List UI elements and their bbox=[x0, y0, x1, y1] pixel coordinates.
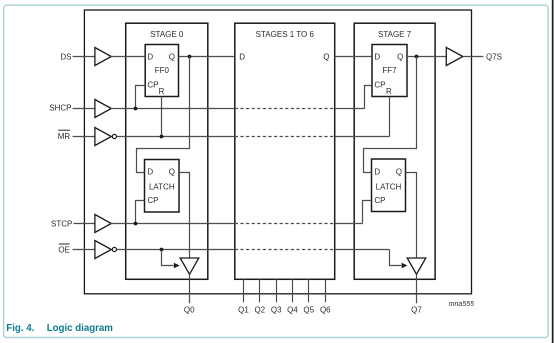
latch LATCH7 bbox=[372, 159, 406, 212]
svg-text:D: D bbox=[147, 52, 153, 61]
wire Q5 stub bbox=[308, 279, 310, 302]
svg-text:D: D bbox=[147, 168, 153, 177]
wire FF7 Q feedback to latch7 D bbox=[364, 57, 417, 173]
node FF7 Q junction bbox=[415, 55, 419, 59]
wire FF0 Q output to stages box bbox=[179, 56, 235, 58]
inverter bubble OE bbox=[112, 247, 116, 251]
wire FF7 CP riser bbox=[365, 86, 373, 109]
wire STCP into stage 7 bbox=[335, 223, 363, 225]
node SHCP-CP junction bbox=[134, 107, 138, 111]
wire buffer to FF0 D bbox=[111, 56, 145, 58]
buffer DS bbox=[95, 48, 111, 66]
wire DS to buffer bbox=[73, 56, 96, 58]
wire FF0 CP riser bbox=[136, 86, 146, 109]
svg-text:LATCH: LATCH bbox=[376, 182, 402, 191]
latch LATCH0 bbox=[145, 160, 180, 213]
svg-text:STAGE 0: STAGE 0 bbox=[150, 30, 184, 39]
wire Q7 stub bbox=[416, 274, 418, 303]
svg-text:Q: Q bbox=[169, 52, 175, 61]
svg-text:Q6: Q6 bbox=[320, 305, 331, 314]
wire OE branch to output buffer enable bbox=[162, 250, 174, 266]
wire latch7 CP riser bbox=[363, 201, 372, 224]
input label OE with overline bbox=[58, 244, 70, 254]
inverter OE bbox=[95, 241, 111, 259]
wire STCP dashed in stages 1-6 bbox=[235, 223, 335, 225]
wire FF0 Q feedback to latch D bbox=[137, 57, 190, 173]
svg-text:OE: OE bbox=[58, 245, 70, 254]
stages 1 to 6 box bbox=[235, 23, 335, 279]
svg-text:Q3: Q3 bbox=[271, 305, 282, 314]
svg-text:DS: DS bbox=[60, 52, 71, 61]
wire OE to inverter bbox=[73, 249, 96, 251]
stage 0 box bbox=[126, 23, 208, 279]
wire SHCP into stage 7 bbox=[335, 108, 365, 110]
wire FF7 Q to output buffer bbox=[407, 56, 446, 58]
svg-text:D: D bbox=[374, 168, 380, 177]
wire Q0 stub bbox=[189, 274, 191, 303]
svg-text:Q: Q bbox=[323, 53, 329, 62]
node FF0 Q junction bbox=[188, 55, 192, 59]
wire MR to inverter bbox=[73, 136, 96, 138]
wire Q1 stub bbox=[243, 279, 245, 302]
wire SHCP dashed in stages 1-6 bbox=[235, 108, 335, 110]
outer diagram box bbox=[84, 10, 471, 294]
svg-text:SHCP: SHCP bbox=[49, 104, 71, 113]
svg-text:mna555: mna555 bbox=[449, 301, 474, 308]
svg-text:Q0: Q0 bbox=[184, 305, 195, 314]
svg-text:LATCH: LATCH bbox=[149, 182, 175, 191]
buffer Q7S bbox=[446, 48, 463, 66]
wire FF0 R to MR bbox=[161, 97, 163, 137]
svg-text:R: R bbox=[386, 87, 392, 96]
wire STCP bus stage0 bbox=[111, 223, 235, 225]
page edge line right bbox=[552, 0, 554, 343]
stage 7 box bbox=[354, 23, 435, 279]
node MR-R junction bbox=[160, 135, 164, 139]
arrowhead enable stage7 bbox=[402, 263, 408, 268]
inverter MR bbox=[95, 128, 111, 146]
svg-text:CP: CP bbox=[374, 80, 385, 89]
wire Q2 stub bbox=[259, 279, 261, 302]
svg-text:D: D bbox=[239, 53, 245, 62]
wire latch0 Q to output buffer bbox=[179, 173, 190, 259]
wire OE into stage 7 bbox=[335, 249, 390, 251]
input label MR with overline bbox=[58, 130, 71, 141]
wire latch0 CP riser bbox=[136, 201, 145, 224]
inverter bubble MR bbox=[112, 134, 116, 138]
svg-text:R: R bbox=[159, 87, 165, 96]
wire latch7 Q to output buffer bbox=[406, 173, 417, 259]
wire OE branch stage7 bbox=[390, 250, 402, 266]
arrowhead enable stage0 bbox=[174, 263, 180, 268]
svg-text:STAGES 1 TO 6: STAGES 1 TO 6 bbox=[256, 30, 315, 39]
wire SHCP bus stage0 bbox=[111, 108, 235, 110]
output buffer Q7 (3-state, pointing down) bbox=[407, 258, 426, 274]
wire Q3 stub bbox=[276, 279, 278, 302]
svg-text:Q2: Q2 bbox=[254, 305, 265, 314]
svg-text:Q: Q bbox=[397, 52, 403, 61]
svg-text:Fig. 4.: Fig. 4. bbox=[6, 323, 34, 334]
wire OE bus stage0 bbox=[117, 249, 235, 251]
svg-text:CP: CP bbox=[147, 80, 158, 89]
wire Q6 stub bbox=[325, 279, 327, 302]
node STCP-CP junction bbox=[134, 222, 138, 226]
wire MR bus stage0 bbox=[117, 136, 235, 138]
node OE branch junction stage0 bbox=[160, 248, 164, 252]
svg-text:CP: CP bbox=[147, 196, 158, 205]
svg-text:MR: MR bbox=[58, 132, 71, 141]
svg-text:Q4: Q4 bbox=[287, 305, 298, 314]
svg-text:Q7S: Q7S bbox=[486, 53, 502, 62]
flip-flop FF0 bbox=[145, 45, 178, 97]
svg-text:STCP: STCP bbox=[51, 220, 72, 229]
svg-text:CP: CP bbox=[374, 196, 385, 205]
svg-text:Logic diagram: Logic diagram bbox=[47, 323, 114, 334]
svg-text:Q: Q bbox=[169, 168, 175, 177]
wire MR into stage 7 bbox=[335, 136, 390, 138]
wire Q7S out bbox=[463, 56, 484, 58]
wire stages Q to FF7 D bbox=[335, 56, 372, 58]
svg-text:D: D bbox=[374, 52, 380, 61]
output buffer Q0 (3-state, pointing down) bbox=[180, 258, 199, 274]
wire STCP to buffer bbox=[74, 223, 96, 225]
wire MR dashed in stages 1-6 bbox=[235, 136, 335, 138]
wire Q4 stub bbox=[292, 279, 294, 302]
wire SHCP to buffer bbox=[73, 108, 96, 110]
svg-text:FF7: FF7 bbox=[382, 66, 397, 75]
flip-flop FF7 bbox=[372, 45, 407, 97]
wire OE dashed in stages 1-6 bbox=[235, 249, 335, 251]
svg-text:Q5: Q5 bbox=[303, 305, 314, 314]
svg-text:Q1: Q1 bbox=[238, 305, 249, 314]
buffer STCP bbox=[95, 215, 111, 233]
svg-text:STAGE 7: STAGE 7 bbox=[378, 30, 412, 39]
wire FF7 R to MR bbox=[389, 97, 391, 137]
buffer SHCP bbox=[95, 100, 111, 118]
svg-text:Q: Q bbox=[396, 168, 402, 177]
svg-text:FF0: FF0 bbox=[155, 66, 170, 75]
svg-text:Q7: Q7 bbox=[411, 305, 422, 314]
